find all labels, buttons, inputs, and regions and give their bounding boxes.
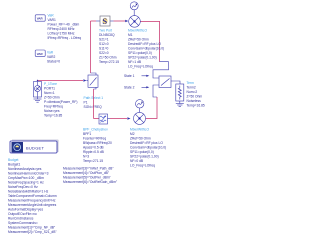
svg-text:DesiredIF=RF plus LO: DesiredIF=RF plus LO bbox=[128, 42, 161, 46]
svg-text:MixerWithLO: MixerWithLO bbox=[130, 128, 149, 132]
svg-text:M1: M1 bbox=[128, 33, 133, 37]
svg-text:AutoFormatDisplay=yes: AutoFormatDisplay=yes bbox=[8, 208, 43, 212]
svg-text:VAR2: VAR2 bbox=[47, 55, 56, 59]
svg-text:Status=0: Status=0 bbox=[47, 60, 60, 64]
svg-text:Temp=16.85: Temp=16.85 bbox=[44, 114, 62, 118]
svg-text:Measurement[3]="InRef_Path_dB": Measurement[3]="InRef_Path_dB" bbox=[63, 167, 114, 171]
svg-text:S22=0: S22=0 bbox=[99, 51, 109, 55]
svg-text:SP22=polar(0.1,90): SP22=polar(0.1,90) bbox=[128, 56, 157, 60]
svg-text:NF=0 dB: NF=0 dB bbox=[130, 159, 144, 163]
svg-text:RFfreq=2400 MHz: RFfreq=2400 MHz bbox=[48, 27, 75, 31]
svg-text:RunCmdInstance: RunCmdInstance bbox=[8, 217, 34, 221]
svg-text:MeasurementAngleUnit=degrees: MeasurementAngleUnit=degrees bbox=[8, 203, 57, 207]
svg-text:NoiseFreqSpacing=1 Hz: NoiseFreqSpacing=1 Hz bbox=[8, 181, 44, 185]
svg-text:SP22=polar(0.1,90): SP22=polar(0.1,90) bbox=[130, 155, 159, 159]
svg-text:Power_RF=-40 _dBm: Power_RF=-40 _dBm bbox=[48, 23, 80, 27]
svg-text:Measurement[6]="OutRefGain_dBm: Measurement[6]="OutRefGain_dBm" bbox=[63, 180, 118, 184]
svg-text:ConvGain=dbpolar(10,0): ConvGain=dbpolar(10,0) bbox=[128, 47, 164, 51]
svg-text:Freq=RFfreq: Freq=RFfreq bbox=[44, 105, 63, 109]
svg-text:P_1Tone: P_1Tone bbox=[44, 82, 57, 86]
svg-text:LO_Freq=LOfreq: LO_Freq=LOfreq bbox=[130, 164, 155, 168]
svg-text:IFfreq=RFfreq - LOfreq: IFfreq=RFfreq - LOfreq bbox=[48, 36, 82, 40]
svg-text:DLNBC8Q: DLNBC8Q bbox=[99, 33, 115, 37]
svg-text:ConvGain=dbpolar(10,0): ConvGain=dbpolar(10,0) bbox=[130, 146, 166, 150]
svg-text:Measurement[2]="Cmp_S21_dB": Measurement[2]="Cmp_S21_dB" bbox=[8, 230, 57, 234]
svg-text:VaR: VaR bbox=[47, 51, 54, 55]
svg-text:NoiseBandwidthRatio=1 Hz: NoiseBandwidthRatio=1 Hz bbox=[8, 190, 49, 194]
svg-text:PORT1: PORT1 bbox=[44, 87, 55, 91]
svg-text:Term: Term bbox=[187, 81, 195, 85]
svg-text:LO_Freq=LOfreq: LO_Freq=LOfreq bbox=[128, 65, 153, 69]
svg-text:CmpMaxPwr=100 _dBm: CmpMaxPwr=100 _dBm bbox=[8, 176, 44, 180]
svg-text:Measurement[1]="Cmp_NF_dB": Measurement[1]="Cmp_NF_dB" bbox=[8, 226, 56, 230]
svg-text:Z=50 Ohm: Z=50 Ohm bbox=[44, 96, 60, 100]
svg-text:Num=1: Num=1 bbox=[44, 91, 55, 95]
svg-text:Temp=271.15: Temp=271.15 bbox=[83, 159, 103, 163]
svg-text:Noise=yes: Noise=yes bbox=[44, 109, 60, 113]
svg-text:Noiseless: Noiseless bbox=[187, 99, 202, 103]
svg-text:N=3: N=3 bbox=[83, 155, 89, 159]
svg-text:NoiseFreqDev=0 Hz: NoiseFreqDev=0 Hz bbox=[8, 185, 38, 189]
svg-text:Budget1: Budget1 bbox=[8, 163, 20, 167]
svg-text:Temp=16.85: Temp=16.85 bbox=[187, 104, 205, 108]
svg-text:MeasurementFrequencyUnit=Hz: MeasurementFrequencyUnit=Hz bbox=[8, 199, 56, 203]
svg-text:NF=1 dB: NF=1 dB bbox=[128, 60, 142, 64]
svg-text:Num=2: Num=2 bbox=[187, 90, 198, 94]
svg-text:SP11=polar(0,0): SP11=polar(0,0) bbox=[128, 51, 152, 55]
svg-text:State 1: State 1 bbox=[124, 74, 135, 78]
svg-text:DesiredIF=RF plus LO: DesiredIF=RF plus LO bbox=[130, 141, 163, 145]
svg-text:VAR: VAR bbox=[37, 17, 44, 21]
svg-text:TableComponentFormat=Column: TableComponentFormat=Column bbox=[8, 194, 57, 198]
svg-text:P=dbmtow(Power_RF): P=dbmtow(Power_RF) bbox=[44, 100, 77, 104]
svg-text:P1: P1 bbox=[84, 101, 88, 105]
svg-text:VaR: VaR bbox=[48, 14, 55, 18]
svg-text:ZRef=50 Ohm: ZRef=50 Ohm bbox=[130, 137, 151, 141]
svg-text:Apass=0.5 dB: Apass=0.5 dB bbox=[83, 146, 104, 150]
svg-text:Measurement[4]="OutPton_dB": Measurement[4]="OutPton_dB" bbox=[63, 171, 110, 175]
svg-text:BWpass=RFfreq/20: BWpass=RFfreq/20 bbox=[83, 141, 112, 145]
svg-text:NonlinearAnalysis=yes: NonlinearAnalysis=yes bbox=[8, 167, 42, 171]
svg-text:BUDGET: BUDGET bbox=[26, 145, 44, 150]
svg-text:Temp=272.15: Temp=272.15 bbox=[99, 60, 119, 64]
svg-text:Term2: Term2 bbox=[187, 86, 196, 90]
svg-text:ZRef=50 Ohm: ZRef=50 Ohm bbox=[128, 38, 149, 42]
svg-text:VAR1: VAR1 bbox=[48, 18, 57, 22]
svg-text:BPF1: BPF1 bbox=[83, 132, 91, 136]
svg-text:Z=50 Ohm: Z=50 Ohm bbox=[187, 95, 203, 99]
svg-text:BPF_Chebyshev: BPF_Chebyshev bbox=[83, 128, 108, 132]
svg-text:S12=0: S12=0 bbox=[99, 42, 109, 46]
svg-text:NonlinearHarmonicOrder=3: NonlinearHarmonicOrder=3 bbox=[8, 172, 49, 176]
svg-text:LOfreq=1750 MHz: LOfreq=1750 MHz bbox=[48, 32, 75, 36]
svg-text:SGN=FREQ: SGN=FREQ bbox=[84, 105, 103, 109]
svg-text:VAR: VAR bbox=[37, 52, 44, 56]
svg-text:Fcenter=RFfreq: Fcenter=RFfreq bbox=[83, 137, 106, 141]
svg-text:State 2: State 2 bbox=[124, 86, 135, 90]
svg-text:OutputECsvFile=no: OutputECsvFile=no bbox=[8, 212, 37, 216]
svg-text:SystemCommands=: SystemCommands= bbox=[8, 221, 38, 225]
svg-text:SP11=polar(0,0): SP11=polar(0,0) bbox=[130, 150, 154, 154]
svg-text:S: S bbox=[102, 16, 107, 26]
svg-text:M2: M2 bbox=[130, 132, 135, 136]
svg-text:Budget: Budget bbox=[8, 158, 19, 162]
svg-text:Two Port: Two Port bbox=[99, 29, 112, 33]
svg-text:MixerWithLO: MixerWithLO bbox=[128, 29, 147, 33]
svg-text:Z1=50 Ohm: Z1=50 Ohm bbox=[99, 56, 117, 60]
svg-text:S11=0: S11=0 bbox=[99, 47, 109, 51]
svg-text:S21=1: S21=1 bbox=[99, 38, 109, 42]
svg-text:Ripple=0.5 dB: Ripple=0.5 dB bbox=[83, 150, 105, 154]
svg-text:Measurement[5]="OutPwr_dBm": Measurement[5]="OutPwr_dBm" bbox=[63, 176, 112, 180]
